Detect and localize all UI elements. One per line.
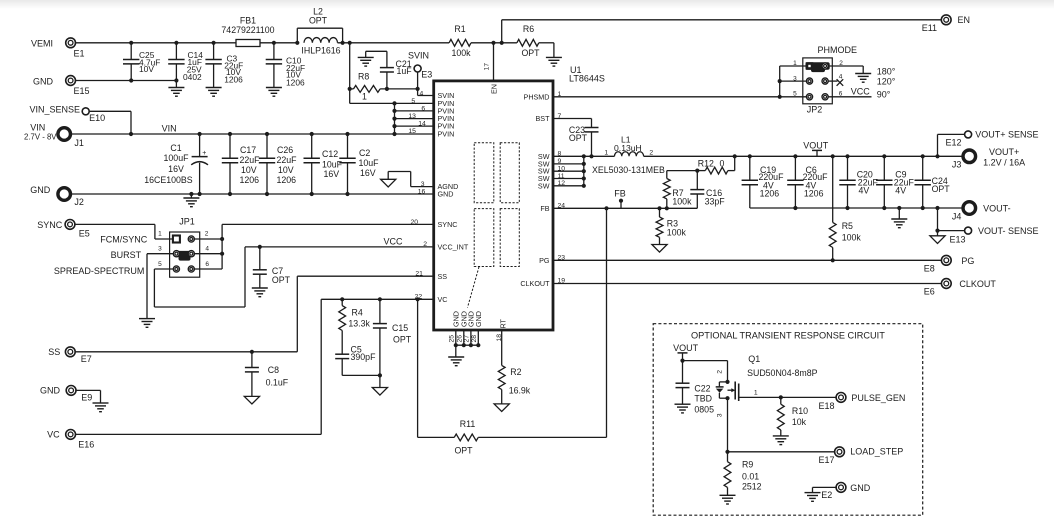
svg-text:J2: J2: [74, 197, 84, 207]
svg-text:OPTIONAL TRANSIENT RESPONSE CI: OPTIONAL TRANSIENT RESPONSE CIRCUIT: [691, 330, 885, 340]
terminal E2 GND: [836, 483, 846, 493]
wire AGND pin 3: [411, 186, 434, 188]
capacitor C19: [749, 156, 751, 180]
wire VEMI rail: [75, 42, 236, 44]
wire PVIN pin 5: [350, 102, 434, 104]
svg-text:33pF: 33pF: [705, 197, 726, 207]
connector J1 VIN: [58, 128, 71, 141]
resistor R4: [341, 299, 343, 305]
svg-text:RT: RT: [499, 318, 508, 328]
svg-text:2512: 2512: [742, 481, 762, 491]
wire CLKOUT line: [553, 283, 942, 285]
U1 bottom GND pins: [455, 330, 457, 345]
svg-text:R11: R11: [460, 419, 476, 429]
terminal E1 VEMI: [66, 38, 76, 48]
svg-text:E5: E5: [79, 228, 90, 238]
capacitor C26: [266, 134, 268, 158]
jumper JP2 pin 5: [806, 94, 812, 100]
svg-text:6: 6: [205, 261, 209, 268]
U1 internal dashed blocks: [468, 143, 520, 308]
svg-text:E7: E7: [81, 354, 92, 364]
svg-text:IHLP1616: IHLP1616: [301, 46, 340, 56]
wire FB1 to L2: [260, 42, 297, 44]
ground arrow AGND: [381, 179, 396, 187]
svg-text:120°: 120°: [877, 76, 896, 86]
capacitor C9: [883, 156, 885, 180]
capacitor C21: [386, 51, 388, 67]
svg-text:14: 14: [418, 121, 426, 128]
ground at GND rail: [189, 192, 193, 196]
wire PG line: [553, 259, 942, 261]
svg-text:6: 6: [421, 105, 425, 112]
svg-text:R9: R9: [742, 460, 753, 470]
svg-text:J1: J1: [74, 138, 84, 148]
capacitor C2: [347, 134, 349, 158]
resistor R11: [417, 299, 419, 437]
ground at E2: [813, 486, 837, 488]
jumper JP1 pin 2: [188, 236, 194, 242]
svg-text:18: 18: [496, 334, 503, 342]
capacitor C20: [847, 156, 849, 180]
wire R12 to R7: [667, 170, 698, 172]
jumper JP1 pin 6: [188, 266, 194, 272]
wire GND rail: [70, 193, 433, 195]
jumper JP1 pin 4: [188, 251, 194, 257]
svg-text:JP2: JP2: [807, 105, 823, 115]
capacitor C22: [682, 361, 684, 384]
wire PHSMD to JP2: [553, 96, 780, 98]
svg-text:XEL5030-131MEB: XEL5030-131MEB: [592, 165, 665, 175]
svg-text:PHMODE: PHMODE: [818, 45, 858, 55]
svg-text:0.1uF: 0.1uF: [266, 378, 289, 388]
resistor R6: [517, 39, 539, 46]
svg-text:GND: GND: [474, 311, 483, 327]
svg-text:OPT: OPT: [393, 335, 412, 345]
svg-text:BST: BST: [536, 114, 551, 123]
svg-text:VC: VC: [438, 295, 448, 304]
wire EN pin 17: [493, 43, 495, 81]
svg-text:LT8644S: LT8644S: [569, 73, 605, 83]
svg-text:1: 1: [604, 150, 608, 157]
wire VOUT to Q1 drain: [683, 360, 728, 362]
svg-text:E1: E1: [74, 49, 85, 59]
wire E15 gnd line: [75, 80, 177, 82]
svg-text:PVIN: PVIN: [438, 130, 455, 139]
svg-text:E6: E6: [924, 287, 935, 297]
terminal E15 GND: [66, 76, 76, 86]
ground arrow at C5 C15: [379, 375, 381, 387]
svg-text:16.9k: 16.9k: [509, 385, 531, 395]
svg-text:13.3k: 13.3k: [348, 319, 370, 329]
jumper JP2 box: [803, 58, 833, 104]
svg-text:R12: R12: [698, 159, 714, 169]
svg-text:1: 1: [362, 92, 367, 102]
svg-text:EN: EN: [958, 15, 971, 25]
ground at C10: [266, 87, 282, 89]
svg-text:VEMI: VEMI: [31, 39, 53, 49]
capacitor C5: [335, 353, 349, 355]
wire JP1 column to SYNC: [221, 224, 223, 269]
svg-text:VOUT-: VOUT-: [983, 203, 1011, 213]
resistor R2: [498, 365, 505, 389]
svg-text:27: 27: [463, 335, 470, 343]
ground arrow C8: [244, 396, 259, 404]
ground at E9: [75, 389, 100, 391]
svg-text:E9: E9: [81, 393, 92, 403]
terminal E5 SYNC: [65, 220, 75, 230]
optional transient response box: [653, 324, 923, 516]
svg-text:VOUT+ SENSE: VOUT+ SENSE: [975, 130, 1038, 140]
wire PVIN pin 13: [395, 118, 434, 120]
svg-text:1uF: 1uF: [397, 66, 413, 76]
capacitor C23: [585, 127, 599, 129]
svg-text:OPT: OPT: [569, 133, 588, 143]
wire SVIN node vertical: [349, 43, 351, 104]
capacitor C8: [250, 350, 254, 354]
svg-text:100k: 100k: [667, 228, 687, 238]
resistor R7: [663, 179, 670, 199]
ground at R9: [720, 494, 736, 496]
svg-text:EN: EN: [490, 84, 499, 94]
capacitor C1: [199, 134, 201, 156]
svg-text:100k: 100k: [451, 48, 471, 58]
svg-text:5: 5: [793, 91, 797, 98]
connector J3 VOUT+: [963, 150, 976, 163]
ground arrow R3: [652, 245, 667, 253]
svg-text:15: 15: [408, 128, 416, 135]
svg-text:VIN_SENSE: VIN_SENSE: [30, 104, 81, 114]
wire E12 branch: [937, 134, 939, 156]
connector J4 VOUT-: [963, 202, 976, 215]
svg-text:C1: C1: [170, 143, 181, 153]
svg-text:1.2V / 16A: 1.2V / 16A: [983, 158, 1025, 168]
terminal E16 VC: [66, 430, 76, 440]
terminal E8 PG: [941, 255, 951, 265]
ground at C14: [168, 87, 184, 89]
svg-text:SUD50N04-8m8P: SUD50N04-8m8P: [747, 368, 818, 378]
svg-text:JP1: JP1: [179, 216, 195, 226]
ground at C7: [252, 287, 268, 289]
terminal E3 SVIN: [414, 65, 421, 72]
svg-text:FB: FB: [614, 188, 626, 198]
svg-text:28: 28: [471, 335, 478, 343]
svg-text:PG: PG: [539, 256, 550, 265]
svg-text:GND: GND: [850, 483, 871, 493]
svg-text:GND: GND: [30, 185, 51, 195]
svg-text:VCC_INT: VCC_INT: [438, 243, 469, 252]
ground at C21: [366, 50, 387, 52]
svg-text:E2: E2: [821, 490, 832, 500]
terminal E7 SS: [65, 347, 75, 357]
wire SYNC to U1: [222, 223, 434, 225]
svg-text:VOUT: VOUT: [673, 343, 699, 353]
jumper JP2 pin 6: [822, 94, 828, 100]
wire PVIN pin 6: [395, 110, 434, 112]
svg-text:1206: 1206: [286, 77, 305, 87]
svg-text:FB: FB: [540, 204, 549, 213]
svg-text:10V: 10V: [241, 165, 257, 175]
resistor R3: [657, 206, 661, 210]
terminal E10 VIN_SENSE: [82, 108, 89, 115]
svg-text:CLKOUT: CLKOUT: [520, 279, 550, 288]
ground at U1 GND pins: [455, 345, 457, 357]
svg-text:0805: 0805: [694, 405, 714, 415]
capacitor C12: [311, 134, 313, 158]
svg-text:R10: R10: [792, 406, 808, 416]
svg-text:3: 3: [158, 245, 162, 252]
svg-text:R5: R5: [842, 221, 853, 231]
svg-text:C8: C8: [268, 365, 279, 375]
wire VOUT- rail: [750, 207, 964, 209]
svg-text:E11: E11: [922, 23, 937, 33]
svg-text:E3: E3: [421, 70, 432, 80]
svg-text:390pF: 390pF: [351, 352, 377, 362]
svg-text:3: 3: [421, 181, 425, 188]
svg-text:C26: C26: [277, 145, 293, 155]
wire JP1 pin5 to VCC: [153, 269, 155, 307]
svg-text:C17: C17: [240, 145, 256, 155]
node VOUT flag: [816, 150, 818, 156]
svg-text:5: 5: [411, 98, 415, 105]
svg-text:SYNC: SYNC: [438, 220, 458, 229]
ferrite bead FB1: [236, 40, 260, 47]
inductor L1: [615, 152, 644, 157]
capacitor C16: [696, 171, 698, 190]
svg-text:1: 1: [158, 230, 162, 237]
jumper JP2 shunt 1-2: [806, 62, 830, 70]
svg-text:1206: 1206: [240, 175, 260, 185]
svg-text:6: 6: [839, 91, 843, 98]
resistor R9: [727, 452, 729, 462]
capacitor C25: [130, 43, 132, 60]
svg-text:R6: R6: [523, 24, 534, 34]
ground at R10: [773, 435, 789, 437]
jumper JP2 pin 4: [822, 78, 828, 84]
wire VC line: [75, 433, 321, 435]
svg-text:C12: C12: [322, 149, 338, 159]
svg-text:R4: R4: [352, 308, 363, 318]
svg-text:3: 3: [793, 75, 797, 82]
svg-text:PULSE_GEN: PULSE_GEN: [851, 393, 905, 403]
jumper JP2 pin 2: [822, 63, 828, 69]
svg-text:74279221100: 74279221100: [221, 25, 274, 35]
jumper JP1 pin 1: [173, 236, 180, 243]
svg-text:E10: E10: [89, 113, 105, 123]
svg-text:PHSMD: PHSMD: [524, 92, 550, 101]
svg-text:SYNC: SYNC: [37, 220, 63, 230]
svg-text:2: 2: [205, 230, 209, 237]
svg-text:OPT: OPT: [932, 184, 951, 194]
wire E13 branch: [935, 206, 939, 210]
svg-text:C22: C22: [694, 384, 710, 394]
svg-text:2: 2: [649, 150, 653, 157]
svg-text:SVIN: SVIN: [408, 51, 429, 61]
svg-text:E17: E17: [819, 455, 835, 465]
wire SW pins column: [553, 155, 615, 157]
svg-text:GND: GND: [40, 386, 61, 396]
svg-text:100k: 100k: [842, 233, 862, 243]
terminal E17 LOAD_STEP: [835, 447, 845, 457]
wire PVIN pin 14: [395, 125, 434, 127]
svg-text:16V: 16V: [324, 169, 340, 179]
svg-text:LOAD_STEP: LOAD_STEP: [850, 446, 903, 456]
svg-text:GND: GND: [438, 190, 454, 199]
jumper JP2 pin 3: [806, 78, 812, 84]
resistor R8: [350, 88, 354, 90]
svg-text:10uF: 10uF: [322, 160, 343, 170]
svg-text:OPT: OPT: [454, 446, 473, 456]
ground arrow E13: [937, 231, 939, 236]
wire L2 out to R1: [338, 42, 450, 44]
svg-text:16V: 16V: [360, 168, 376, 178]
svg-text:180°: 180°: [877, 66, 896, 76]
wire VOUT rail: [644, 155, 964, 157]
inductor L2: [304, 38, 338, 43]
svg-text:100uF: 100uF: [164, 153, 190, 163]
svg-text:16CE100BS: 16CE100BS: [144, 175, 193, 185]
svg-text:3: 3: [717, 413, 724, 417]
jumper JP1 box: [170, 232, 200, 277]
svg-text:4V: 4V: [859, 185, 870, 195]
jumper JP1 shunt 3-4: [173, 251, 195, 257]
svg-text:VIN: VIN: [30, 123, 45, 133]
svg-text:E12: E12: [946, 137, 962, 147]
ground at R6: [553, 43, 555, 58]
wire JP2 left column: [779, 66, 781, 97]
svg-text:VOUT- SENSE: VOUT- SENSE: [978, 226, 1039, 236]
terminal E18 PULSE_GEN: [836, 393, 846, 403]
wire PVIN column: [394, 103, 396, 134]
svg-text:OPT: OPT: [309, 16, 328, 26]
svg-text:25: 25: [448, 335, 455, 343]
terminal E12 VOUT+ SENSE: [965, 131, 972, 138]
ground at C22: [675, 403, 691, 405]
wire LOAD_STEP line: [725, 450, 729, 454]
jumper JP2 pin 1: [806, 63, 812, 69]
svg-text:26: 26: [456, 335, 463, 343]
capacitor C17: [229, 134, 231, 158]
wire E10 to VIN: [89, 110, 131, 112]
capacitor C3: [213, 43, 215, 60]
svg-text:16V: 16V: [168, 164, 184, 174]
svg-text:GND: GND: [33, 77, 54, 87]
svg-text:FB1: FB1: [240, 16, 256, 26]
ground at VOUT- rail: [897, 206, 901, 210]
svg-text:2: 2: [717, 370, 724, 374]
svg-text:E8: E8: [924, 264, 935, 274]
svg-text:1: 1: [754, 390, 758, 397]
wire VCC line: [245, 246, 434, 248]
svg-text:+: +: [202, 150, 206, 157]
svg-text:13: 13: [408, 113, 416, 120]
svg-text:C2: C2: [359, 148, 370, 158]
capacitor C14: [175, 43, 177, 60]
capacitor C6: [794, 156, 796, 180]
svg-text:VIN: VIN: [162, 124, 177, 134]
wire Q1 source: [727, 398, 729, 452]
svg-text:E15: E15: [74, 86, 90, 96]
svg-text:SS: SS: [438, 272, 448, 281]
svg-text:10k: 10k: [792, 417, 807, 427]
svg-text:22uF: 22uF: [240, 155, 261, 165]
svg-text:C15: C15: [392, 323, 408, 333]
svg-text:17: 17: [484, 63, 491, 71]
svg-text:4: 4: [205, 245, 209, 252]
terminal E13 VOUT- SENSE: [965, 227, 972, 234]
terminal E11 EN: [941, 15, 951, 25]
capacitor C10: [273, 43, 275, 60]
ground at JP2 pin 2: [862, 66, 864, 74]
U1 RT pin 18: [501, 330, 503, 365]
svg-text:1206: 1206: [224, 75, 243, 85]
node FB flag: [619, 199, 623, 203]
resistor R12: [734, 156, 736, 170]
svg-text:R2: R2: [510, 367, 521, 377]
svg-text:2.7V - 8V: 2.7V - 8V: [24, 133, 57, 142]
wire L2 bypass strap: [296, 28, 298, 43]
svg-text:1206: 1206: [804, 189, 824, 199]
svg-text:1206: 1206: [277, 175, 297, 185]
svg-text:J4: J4: [952, 212, 962, 222]
jumper JP1 pin 5: [173, 266, 179, 272]
jumper JP1 pin 3: [173, 251, 179, 257]
svg-text:0402: 0402: [183, 72, 202, 82]
svg-text:0.13uH: 0.13uH: [614, 143, 642, 153]
wire E5 to JP1 pin 1: [74, 223, 155, 225]
ground at JP1 pin 3: [146, 254, 148, 319]
wire EN to E11: [501, 20, 503, 43]
svg-text:E13: E13: [950, 234, 966, 244]
svg-text:FCM/SYNC: FCM/SYNC: [100, 235, 148, 245]
resistor R5: [832, 156, 834, 222]
svg-text:OPT: OPT: [521, 48, 540, 58]
svg-text:VCC: VCC: [851, 87, 871, 97]
svg-text:0.01: 0.01: [742, 471, 759, 481]
wire SS line: [75, 351, 298, 353]
terminal E6 CLKOUT: [941, 279, 951, 289]
wire BST pin 7: [553, 118, 592, 120]
ground arrow R2: [494, 404, 509, 412]
node EN junction: [491, 41, 495, 45]
svg-text:TBD: TBD: [694, 394, 712, 404]
svg-text:10V: 10V: [278, 165, 294, 175]
svg-text:10V: 10V: [139, 64, 154, 74]
svg-text:J3: J3: [952, 159, 962, 169]
terminal E9 GND: [66, 386, 76, 396]
svg-text:SS: SS: [48, 347, 60, 357]
capacitor C24: [922, 156, 924, 180]
wire E3 to SVIN pin: [417, 72, 419, 96]
svg-text:VOUT+: VOUT+: [989, 147, 1019, 157]
svg-text:SW: SW: [538, 181, 550, 190]
capacitor C7: [259, 247, 261, 270]
svg-text:90°: 90°: [877, 90, 891, 100]
svg-text:16: 16: [418, 188, 426, 195]
svg-text:0: 0: [720, 159, 725, 169]
svg-text:100k: 100k: [672, 197, 692, 207]
svg-text:R8: R8: [358, 72, 369, 82]
resistor R10: [780, 397, 782, 404]
ground at C3: [206, 87, 222, 89]
wire VIN rail: [70, 133, 433, 135]
op-amp U1 LT8644S body: [434, 81, 553, 330]
svg-text:4: 4: [839, 73, 843, 80]
svg-text:4: 4: [420, 90, 424, 97]
svg-text:VOUT: VOUT: [803, 140, 829, 150]
svg-text:2: 2: [839, 60, 843, 67]
resistor R1: [449, 39, 471, 46]
svg-text:R1: R1: [454, 24, 465, 34]
